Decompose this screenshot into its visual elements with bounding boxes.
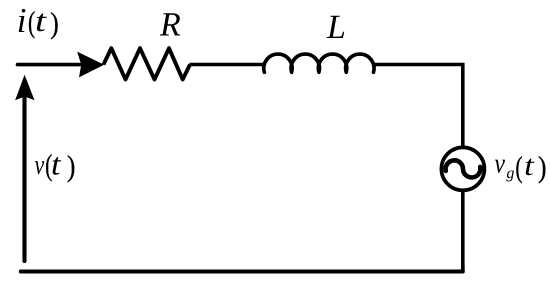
svg-text:): ) [67, 150, 76, 183]
wire: top-left horizontal lead [18, 63, 81, 67]
svg-text:R: R [159, 7, 181, 44]
voltage arrowhead v(t) [15, 75, 34, 101]
wire: below source down to bottom [461, 192, 465, 272]
svg-text:): ) [538, 151, 547, 184]
svg-text:t: t [51, 147, 62, 182]
wire: top-right with corner down to source [374, 65, 463, 147]
AC source sine wave [446, 160, 481, 177]
wire: bottom horizontal [21, 270, 463, 274]
svg-text:i: i [17, 1, 27, 40]
svg-text:t: t [524, 150, 535, 182]
svg-text:): ) [50, 7, 59, 40]
wire: between resistor and inductor [190, 63, 266, 67]
svg-text:g: g [506, 165, 514, 182]
current arrowhead i(t) [77, 52, 104, 78]
voltage arrow shaft v(t) [22, 97, 26, 261]
AC source circle [441, 147, 484, 190]
svg-text:L: L [326, 9, 346, 46]
svg-text:v: v [35, 150, 45, 181]
svg-text:t: t [35, 3, 48, 38]
inductor L (4 humps) [264, 54, 374, 72]
wire: bottom-right corner joiner [461, 265, 465, 272]
svg-text:(: ( [515, 151, 522, 184]
svg-text:v: v [494, 149, 505, 180]
resistor R zigzag [104, 48, 191, 79]
